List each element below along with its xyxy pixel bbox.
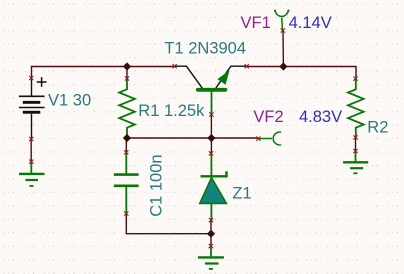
pin x R1 top bbox=[125, 76, 129, 80]
svg-text:R1 1.25k: R1 1.25k bbox=[138, 102, 205, 120]
pin x R2 top bbox=[353, 77, 357, 81]
svg-text:VF2: VF2 bbox=[253, 108, 283, 126]
ground below battery bbox=[19, 162, 45, 186]
wire VF1 drop bbox=[282, 31, 284, 67]
pin x T1 base bbox=[209, 112, 213, 116]
svg-text:4.83V: 4.83V bbox=[299, 108, 342, 126]
wire C1 bottom to rail bbox=[126, 214, 211, 234]
pin x C1 top bbox=[124, 150, 128, 154]
wire base vertical bbox=[210, 115, 212, 139]
pin x V1 positive bbox=[29, 76, 33, 80]
svg-text:R2: R2 bbox=[367, 119, 388, 137]
pin x T1 collector bbox=[173, 64, 177, 68]
junction node base/Z1 bbox=[207, 134, 215, 142]
pin x R2 bottom bbox=[353, 135, 357, 139]
battery V1 bbox=[19, 77, 47, 139]
svg-text:C1 100n: C1 100n bbox=[148, 154, 166, 216]
pin x ground 3 bbox=[353, 149, 357, 153]
wire R1 top pigtail bbox=[126, 67, 128, 79]
voltage probe VF2 bbox=[258, 132, 281, 145]
svg-text:Z1: Z1 bbox=[232, 185, 251, 203]
wire C1 top pigtail bbox=[125, 138, 127, 152]
wire ground2 pigtail bbox=[210, 234, 212, 246]
pin x VF2 bbox=[256, 137, 260, 141]
junction node base left bbox=[123, 134, 131, 142]
wire top rail bbox=[32, 67, 175, 79]
resistor R1 bbox=[119, 79, 135, 139]
pin x ground 1 bbox=[29, 160, 33, 164]
wire base rail bbox=[127, 137, 258, 139]
svg-text:4.14V: 4.14V bbox=[289, 14, 332, 32]
zener diode Z1 bbox=[200, 153, 227, 220]
ground below Z1 bbox=[198, 246, 224, 269]
pin x C1 bottom bbox=[124, 211, 128, 215]
pin x V1 negative bbox=[29, 137, 33, 141]
junction node top of R1 bbox=[123, 62, 131, 70]
pin x Z1 cathode bbox=[209, 151, 213, 155]
wire battery bottom bbox=[30, 139, 32, 162]
capacitor C1 bbox=[114, 152, 139, 213]
wire Z1 bottom pigtail bbox=[210, 220, 212, 234]
svg-text:T1 2N3904: T1 2N3904 bbox=[164, 40, 246, 58]
pin x Z1 anode bbox=[209, 218, 213, 222]
pin x VF1 bbox=[281, 28, 285, 32]
junction node VF1/emitter bbox=[279, 62, 287, 70]
svg-text:VF1: VF1 bbox=[241, 14, 271, 32]
junction node bottom rail bbox=[207, 230, 215, 238]
voltage probe VF1 bbox=[275, 10, 289, 31]
svg-text:V1 30: V1 30 bbox=[48, 92, 91, 110]
ground below R2 bbox=[343, 151, 368, 173]
transistor T1 bbox=[175, 66, 247, 114]
pin x ground 2 bbox=[209, 244, 213, 248]
wire emitter rail bbox=[247, 67, 356, 79]
wire R2 to ground bbox=[355, 138, 357, 152]
wire Z1 top pigtail bbox=[210, 138, 212, 153]
pin x T1 emitter bbox=[245, 64, 249, 68]
resistor R2 bbox=[348, 79, 364, 138]
